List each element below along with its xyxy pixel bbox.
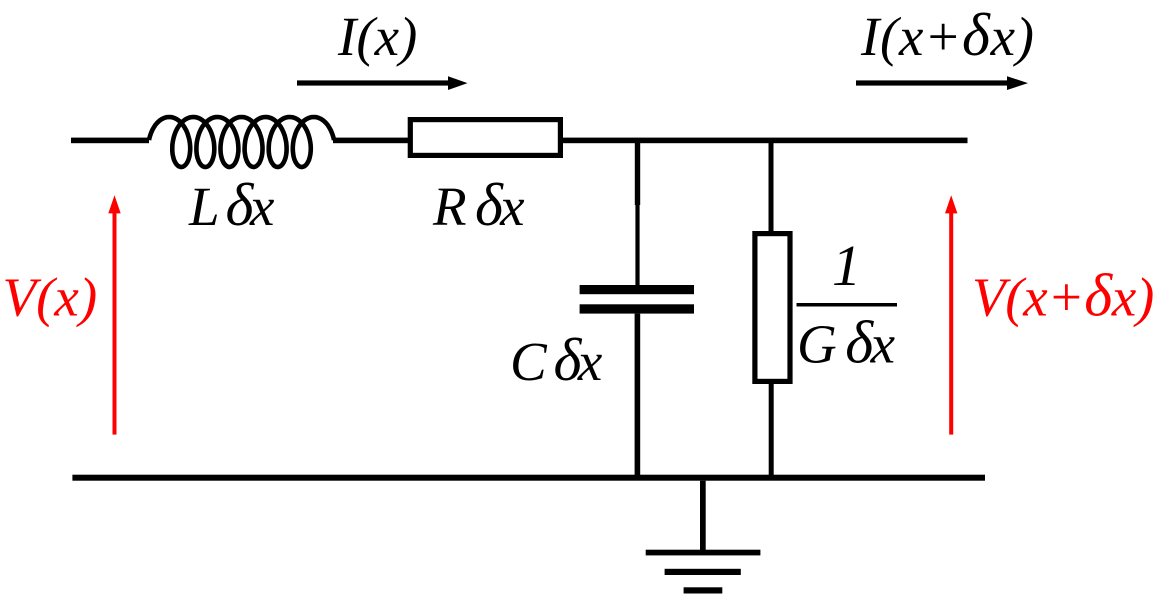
svg-text:I(x): I(x) xyxy=(337,6,417,67)
svg-text:G δx: G δx xyxy=(797,310,896,376)
svg-text:L δx: L δx xyxy=(188,172,275,238)
wire capacitor bottom lead xyxy=(635,314,641,476)
wire top-left lead xyxy=(71,138,149,144)
wire conductance top lead xyxy=(769,143,774,233)
capacitor C1 bottom plate xyxy=(580,304,694,313)
arrow I(x+dx) xyxy=(856,80,1007,85)
capacitor C1 top plate xyxy=(580,285,694,294)
resistor G1 body xyxy=(755,234,790,382)
wire bottom rail xyxy=(72,475,985,481)
ground bar 2 xyxy=(665,569,741,575)
wire top rail right xyxy=(563,138,968,144)
wire ground stub xyxy=(700,481,706,551)
fraction bar xyxy=(797,303,898,307)
svg-text:I(x+δx): I(x+δx) xyxy=(860,2,1035,68)
svg-text:1: 1 xyxy=(832,233,861,298)
wire coil to resistor xyxy=(333,138,408,144)
svg-text:V(x): V(x) xyxy=(3,267,98,328)
resistor R1 body xyxy=(410,120,560,156)
arrow V(x) red xyxy=(113,213,117,435)
wire conductance bottom lead xyxy=(769,382,774,476)
svg-text:C δx: C δx xyxy=(510,327,603,393)
inductor L1 coil xyxy=(149,117,334,167)
ground bar 3 xyxy=(684,587,723,593)
ground bar 1 xyxy=(646,550,761,556)
svg-text:V(x+δx): V(x+δx) xyxy=(972,263,1154,329)
wire capacitor top lead xyxy=(635,143,640,205)
arrow V(x+dx) red xyxy=(949,213,953,435)
arrow I(x) xyxy=(297,80,448,85)
svg-text:R δx: R δx xyxy=(432,172,525,238)
